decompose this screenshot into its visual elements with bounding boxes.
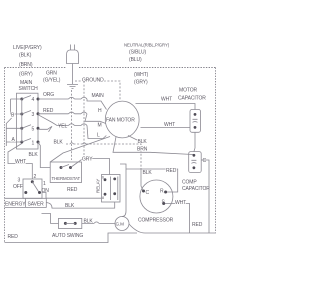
hop on RED over dashed risers: [69, 112, 88, 114]
compressor terminal C: [142, 190, 145, 193]
svg-text:BLK: BLK: [54, 140, 64, 146]
thermostat contacts: [60, 166, 63, 169]
svg-text:H: H: [98, 108, 102, 114]
wire WHT compressor S to neutral: [165, 204, 190, 234]
compressor terminal R: [164, 191, 167, 194]
svg-text:SWITCH: SWITCH: [19, 86, 39, 92]
svg-text:RELAY: RELAY: [96, 179, 101, 193]
wire WHT to energy saver: [8, 144, 32, 180]
svg-text:C: C: [203, 158, 207, 164]
svg-text:BLK: BLK: [138, 139, 148, 145]
svg-text:L: L: [97, 133, 100, 139]
thermostat TH1 box: [50, 162, 81, 183]
svg-text:RED: RED: [166, 168, 177, 174]
svg-text:BLK: BLK: [84, 219, 94, 225]
svg-text:WHT: WHT: [164, 122, 175, 128]
energy saver switch S2 box: [23, 179, 42, 198]
dashed riser wire 2: [83, 81, 85, 155]
svg-text:(GRY): (GRY): [134, 80, 148, 86]
wire GRY thermostat to relay: [71, 159, 110, 175]
svg-text:FAN MOTOR: FAN MOTOR: [106, 118, 135, 124]
left dots bus: [21, 99, 23, 142]
auto swing connector box: [59, 218, 82, 228]
svg-text:SAVER: SAVER: [28, 202, 45, 208]
svg-text:M: M: [98, 123, 102, 129]
auto swing feed wire: [42, 214, 59, 224]
svg-text:AUTO SWING: AUTO SWING: [52, 233, 83, 239]
auto swing contacts: [64, 222, 67, 225]
wire WHT lower to motor capacitor: [141, 127, 191, 129]
wire BLK auto swing to gear motor: [82, 222, 115, 224]
wire RED relay to compressor R: [126, 169, 178, 192]
svg-text:ON: ON: [42, 188, 50, 194]
svg-text:1: 1: [32, 141, 35, 147]
motor capacitor C1 box: [190, 110, 201, 133]
switch pole dots right column: [37, 98, 40, 101]
svg-text:CAPACITOR: CAPACITOR: [182, 186, 210, 192]
svg-text:THERMOSTAT: THERMOSTAT: [52, 176, 81, 181]
svg-text:R: R: [160, 189, 164, 195]
energy saver contacts: [31, 180, 34, 183]
svg-text:WHT: WHT: [161, 97, 172, 103]
svg-text:GRY: GRY: [82, 157, 93, 163]
svg-text:GROUND: GROUND: [82, 78, 104, 84]
comp capacitor plates: [191, 160, 196, 163]
svg-text:5: 5: [32, 127, 35, 133]
svg-text:MOTOR: MOTOR: [179, 88, 198, 94]
energy saver text box: [5, 198, 47, 207]
wire comp cap C terminal RED to border: [201, 160, 209, 233]
wire BLK lower bus: [46, 202, 114, 208]
relay pins: [104, 178, 107, 181]
svg-text:1: 1: [43, 181, 46, 187]
svg-text:BLK: BLK: [143, 170, 153, 176]
svg-text:G.M: G.M: [116, 222, 125, 227]
plug cord to ground: [72, 64, 74, 85]
svg-text:BLK: BLK: [65, 203, 75, 209]
compressor M1: [140, 180, 173, 213]
svg-text:GRN: GRN: [46, 71, 57, 77]
svg-text:(BLU): (BLU): [129, 57, 142, 63]
wire gear motor to border: [129, 224, 216, 233]
energy saver blade: [32, 182, 38, 192]
wire WHT upper to motor capacitor: [136, 104, 196, 110]
power plug P1: [67, 45, 79, 64]
comp capacitor C2 box: [189, 152, 202, 173]
wire BLK fan motor L leg to thermostat: [50, 137, 110, 163]
svg-text:RED: RED: [67, 187, 78, 193]
compressor terminal S: [162, 202, 165, 205]
svg-text:3: 3: [32, 112, 35, 118]
svg-text:(GRY): (GRY): [19, 72, 33, 78]
wire motor cap to comp cap: [194, 132, 195, 151]
svg-text:(BLK): (BLK): [19, 53, 32, 59]
svg-text:3: 3: [18, 178, 21, 184]
svg-text:MAIN: MAIN: [92, 93, 105, 99]
svg-text:6: 6: [102, 176, 104, 180]
comp capacitor terminals: [193, 154, 196, 157]
svg-text:OFF: OFF: [13, 184, 23, 190]
svg-text:NEUTRAL(R/BL,P/GRY): NEUTRAL(R/BL,P/GRY): [124, 43, 170, 48]
switch pole dots left column: [20, 98, 23, 101]
enclosure bottom border: [5, 233, 138, 243]
hop on ORG over dashed risers: [69, 97, 88, 99]
wire from contact 1 down to thermostat: [38, 142, 50, 168]
svg-text:YEL: YEL: [58, 124, 67, 130]
motor capacitor plates: [193, 119, 198, 122]
svg-text:COMPRESSOR: COMPRESSOR: [138, 218, 174, 224]
svg-text:C: C: [146, 190, 150, 196]
hop on YEL over dashed risers: [69, 124, 88, 126]
svg-text:(G/YEL): (G/YEL): [43, 78, 61, 84]
svg-text:ENERGY: ENERGY: [5, 202, 26, 208]
switch blades: [22, 96, 31, 143]
enclosure dashed border: [5, 68, 216, 243]
ground net dashed wire to fan motor frame: [75, 81, 120, 100]
svg-text:BRN: BRN: [137, 147, 148, 153]
wire BLK fan motor to compressor C: [128, 136, 137, 141]
node B feed: [11, 99, 21, 114]
dashed riser wire 1: [71, 90, 73, 160]
motor capacitor terminals: [194, 113, 197, 116]
wire RED from contact 3 to fan motor M: [38, 114, 106, 124]
svg-text:RED: RED: [8, 234, 19, 240]
relay inner frame: [111, 177, 118, 201]
svg-text:LIVE(P/GRY): LIVE(P/GRY): [13, 45, 42, 51]
svg-text:CAPACITOR: CAPACITOR: [178, 96, 206, 102]
svg-text:RED: RED: [192, 222, 203, 228]
svg-text:WHT: WHT: [15, 159, 26, 165]
relay to gear motor wire: [120, 164, 126, 217]
svg-text:RED: RED: [43, 108, 54, 114]
wire BLK energy saver to relay: [42, 193, 102, 199]
svg-text:8: 8: [102, 196, 104, 200]
svg-text:COMP: COMP: [182, 180, 197, 186]
svg-text:(WHT): (WHT): [134, 72, 149, 78]
fan motor FM1: [105, 101, 139, 138]
gear motor G.M.: [115, 217, 129, 231]
svg-text:WHT: WHT: [175, 200, 186, 206]
svg-text:(BRN): (BRN): [19, 62, 33, 68]
svg-text:BLK: BLK: [29, 152, 39, 158]
node A feed: [6, 118, 20, 146]
ground symbol: [67, 85, 78, 89]
wire ORG from contact 4 to fan motor H: [38, 99, 107, 110]
svg-text:4: 4: [32, 97, 35, 103]
svg-text:ORG: ORG: [43, 92, 54, 98]
relay RY1 box: [102, 175, 121, 203]
wire YEL from contact 5 to fan motor L: [38, 115, 106, 139]
svg-text:(S/BLU): (S/BLU): [129, 50, 147, 56]
wire BRN fan motor to comp capacitor: [113, 137, 193, 155]
main switch S1 box: [17, 93, 39, 149]
